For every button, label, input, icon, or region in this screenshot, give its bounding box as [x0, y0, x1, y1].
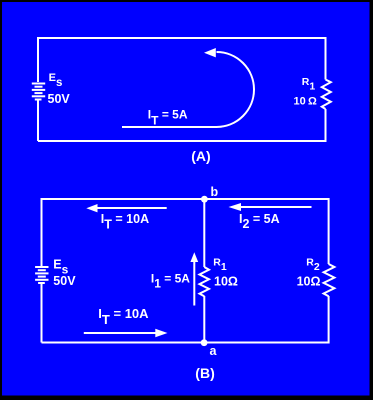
svg-text:10Ω: 10Ω	[297, 275, 321, 289]
current arrow IT bottom (circuit B, pointing right)	[84, 329, 168, 338]
resistor R1 (circuit B) zigzag	[200, 267, 210, 296]
wire: loop A left upper	[37, 37, 39, 82]
wire: middle branch upper (node b to R1)	[203, 199, 205, 267]
node a junction dot	[201, 339, 208, 346]
current arrow IT top (circuit B, pointing left)	[86, 204, 166, 212]
svg-text:50V: 50V	[48, 92, 71, 106]
wire: loop A bottom	[38, 140, 326, 142]
svg-text:50V: 50V	[53, 274, 76, 288]
wire: loop B left lower	[41, 284, 43, 343]
svg-text:10 Ω: 10 Ω	[294, 96, 317, 108]
wire: middle branch lower (R1 to node a)	[203, 296, 205, 343]
resistor R2 (circuit B) zigzag	[324, 264, 335, 296]
battery ES (circuit B)	[35, 267, 48, 283]
wire: loop B right upper	[328, 198, 330, 264]
current arrow IT (circuit A, curved)	[122, 48, 254, 127]
svg-text:(A): (A)	[191, 148, 210, 164]
svg-text:b: b	[211, 185, 219, 199]
wire: loop A left lower	[37, 101, 39, 142]
svg-text:(B): (B)	[195, 365, 214, 381]
svg-text:a: a	[210, 344, 218, 358]
wire: loop B left upper	[41, 198, 43, 266]
wire: loop B bottom	[42, 342, 329, 344]
battery ES (circuit A)	[32, 84, 45, 100]
wire: loop A right upper	[325, 37, 327, 80]
node b junction dot	[201, 196, 208, 203]
wire: loop A top	[38, 37, 326, 39]
svg-text:10Ω: 10Ω	[214, 274, 238, 288]
resistor R1 (circuit A) zigzag	[322, 80, 331, 110]
current arrow I2 (circuit B, pointing left)	[229, 203, 312, 211]
wire: loop B top	[42, 198, 329, 200]
current arrow I1 (circuit B, pointing up)	[190, 252, 198, 305]
wire: loop A right lower	[325, 109, 327, 142]
wire: loop B right lower	[328, 296, 330, 344]
